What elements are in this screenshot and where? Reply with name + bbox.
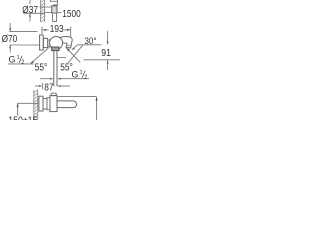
svg-text:87: 87 bbox=[44, 82, 53, 93]
svg-text:G: G bbox=[72, 69, 79, 79]
wall (top detail, hatched) bbox=[41, 0, 45, 22]
outlet reference line (30deg leader) bbox=[78, 44, 102, 46]
union (bottom view) bbox=[43, 99, 47, 109]
body (bottom view) bbox=[50, 96, 57, 112]
hose nut below body bbox=[52, 47, 59, 51]
holder block bbox=[52, 6, 57, 13]
spacer bbox=[48, 40, 50, 46]
svg-text:Ø70: Ø70 bbox=[2, 33, 18, 44]
dimension 87 line bbox=[35, 83, 70, 90]
svg-text:1: 1 bbox=[80, 70, 83, 76]
dimension 87 / hose leader bbox=[40, 78, 89, 80]
shower hose pipe bbox=[54, 51, 57, 87]
escutcheon (bottom view) bbox=[39, 96, 43, 111]
shower head (cut off at top edge) bbox=[50, 0, 57, 6]
svg-text:Ø37: Ø37 bbox=[22, 4, 38, 15]
spout bbox=[60, 37, 73, 48]
dimension Ø37 bbox=[24, 0, 45, 22]
svg-text:G: G bbox=[9, 54, 16, 64]
svg-text:55°: 55° bbox=[35, 62, 48, 73]
flange (bottom view) bbox=[47, 98, 50, 110]
dimension 193 bbox=[42, 27, 71, 37]
left leader arrow bbox=[18, 102, 39, 104]
svg-text:91: 91 bbox=[101, 47, 111, 59]
wall (bottom view, hatched) bbox=[34, 90, 38, 120]
svg-text:2: 2 bbox=[21, 60, 24, 66]
svg-text:1500: 1500 bbox=[62, 8, 80, 19]
escutcheon (side view) bbox=[40, 35, 44, 50]
svg-text:30°: 30° bbox=[85, 35, 97, 46]
holder arm bbox=[45, 7, 52, 12]
spout (bottom view) bbox=[57, 101, 77, 108]
svg-text:1: 1 bbox=[17, 55, 20, 61]
holder clip bbox=[53, 13, 57, 22]
dimension 91 bbox=[107, 31, 109, 70]
diagonal crossing bbox=[68, 45, 83, 63]
right leader arrow bbox=[96, 97, 98, 120]
leader under G 1/2 left bbox=[8, 63, 34, 65]
55-degree diagonal (left) bbox=[31, 46, 51, 63]
55-degree diagonals (right, crossing) bbox=[66, 48, 80, 62]
svg-text:150±15: 150±15 bbox=[8, 114, 37, 120]
union nut bbox=[43, 38, 47, 47]
dimension Ø70 bbox=[10, 23, 40, 53]
svg-text:2: 2 bbox=[84, 75, 87, 81]
body cap (bottom view) bbox=[51, 93, 56, 95]
body (circle) bbox=[50, 37, 63, 50]
hose tick bbox=[57, 57, 66, 59]
svg-text:193: 193 bbox=[50, 23, 64, 34]
leader to 1500 bbox=[57, 12, 62, 14]
spout outlet bbox=[67, 44, 71, 47]
rim reference line bbox=[84, 59, 121, 61]
top reference line (bottom view) bbox=[57, 95, 97, 97]
